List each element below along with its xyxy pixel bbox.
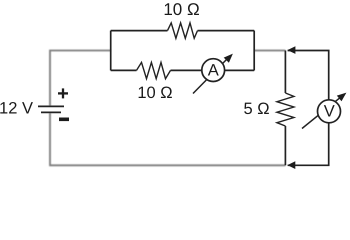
- svg-text:10 Ω: 10 Ω: [137, 84, 172, 102]
- svg-text:5 Ω: 5 Ω: [243, 100, 269, 118]
- svg-text:12 V: 12 V: [0, 100, 33, 118]
- svg-text:V: V: [324, 102, 335, 120]
- svg-text:10 Ω: 10 Ω: [163, 0, 199, 19]
- svg-text:A: A: [208, 62, 219, 80]
